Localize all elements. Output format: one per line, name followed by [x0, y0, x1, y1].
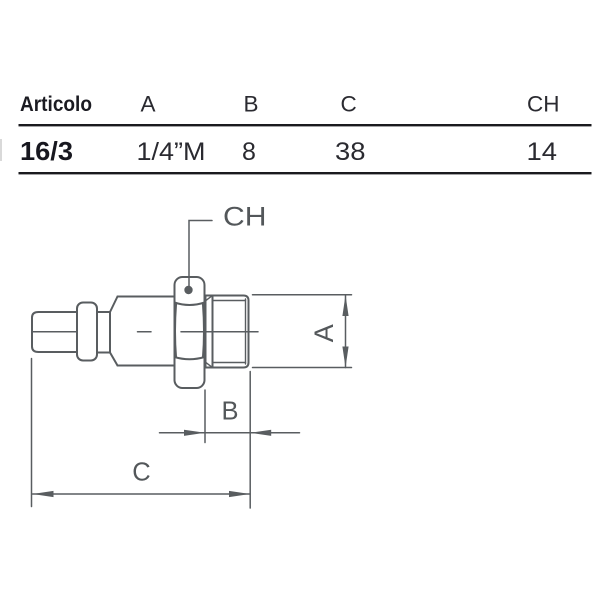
svg-text:B: B: [244, 92, 259, 117]
C arrowhead right: [229, 491, 250, 497]
C extension line left: [31, 359, 33, 507]
svg-text:Articolo: Articolo: [20, 93, 92, 116]
body bottom edge: [118, 365, 175, 367]
svg-text:1/4”M: 1/4”M: [137, 138, 206, 166]
svg-text:38: 38: [335, 138, 366, 166]
hex mark dot for CH: [184, 286, 192, 294]
groove top edge: [97, 311, 110, 313]
body face vertical: [109, 312, 111, 353]
plug collar flange: [77, 303, 97, 361]
thread root line top: [213, 300, 246, 302]
thread left chamfer diagonal bottom: [206, 362, 213, 367]
hex face line upper: [175, 303, 205, 306]
thread left chamfer diagonal top: [206, 296, 213, 301]
table rule bottom: [19, 172, 592, 174]
svg-text:8: 8: [242, 138, 256, 166]
hex middle face right edge arc: [203, 304, 204, 358]
svg-text:A: A: [141, 92, 156, 117]
faint cropped mark at left edge: [0, 139, 2, 161]
thread chamfer line left: [212, 296, 214, 368]
A extension line top: [253, 294, 352, 296]
groove bottom edge: [97, 352, 110, 354]
A arrowhead up: [342, 295, 348, 316]
A extension line bottom: [253, 367, 352, 369]
hex middle face left edge arc: [175, 304, 176, 358]
C dimension line: [33, 493, 251, 495]
body chamfer bottom: [110, 353, 118, 366]
svg-text:A: A: [309, 324, 339, 342]
A arrowhead down: [342, 347, 348, 368]
centerline segment in stem: [32, 331, 77, 333]
body top edge: [118, 296, 175, 298]
B dimension line: [160, 432, 300, 434]
svg-text:C: C: [132, 459, 150, 487]
A dimension line: [345, 295, 347, 368]
thread outline: [206, 296, 249, 368]
svg-text:16/3: 16/3: [20, 138, 73, 166]
centerline through hex and thread: [181, 331, 258, 333]
svg-text:14: 14: [527, 138, 558, 166]
B arrowhead left: [250, 430, 271, 436]
shared extension line right of B and C: [249, 372, 251, 509]
svg-text:B: B: [221, 398, 238, 426]
body chamfer top: [110, 297, 118, 313]
hex nut outline: [175, 277, 205, 388]
hex face line lower: [175, 357, 205, 359]
thread root line bottom: [213, 362, 246, 364]
svg-text:CH: CH: [527, 92, 560, 117]
plug stem: [32, 312, 77, 352]
centerline dash in body: [138, 331, 152, 333]
svg-text:CH: CH: [223, 202, 267, 232]
table rule top: [19, 124, 592, 126]
svg-text:C: C: [341, 92, 357, 117]
thread end chamfer vertical: [245, 299, 247, 364]
B arrowhead right: [184, 430, 205, 436]
B extension line left: [204, 390, 206, 443]
CH leader line: [189, 221, 212, 288]
C arrowhead left: [33, 491, 54, 497]
